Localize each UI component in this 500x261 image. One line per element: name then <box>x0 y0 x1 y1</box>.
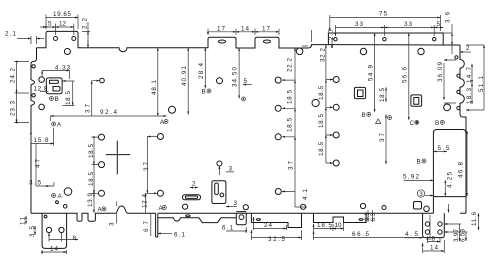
svg-text:12.4: 12.4 <box>142 194 149 208</box>
svg-text:22.2: 22.2 <box>287 58 294 72</box>
svg-text:75: 75 <box>379 11 387 18</box>
svg-text:18.5: 18.5 <box>65 91 72 105</box>
dim 51.1 rot <box>466 45 484 110</box>
svg-text:3: 3 <box>109 222 116 226</box>
dim 37 rot left-center <box>92 81 100 116</box>
B mark center <box>207 89 211 93</box>
svg-text:28.4: 28.4 <box>198 63 205 79</box>
svg-text:14: 14 <box>241 26 249 33</box>
svg-text:2: 2 <box>466 45 470 52</box>
svg-text:14.7: 14.7 <box>466 67 473 83</box>
svg-text:37: 37 <box>85 104 92 113</box>
dim 14.7 rot <box>471 64 473 83</box>
svg-text:B: B <box>417 159 421 166</box>
dim 40.91 rot <box>187 48 189 115</box>
svg-text:8: 8 <box>432 236 436 243</box>
dim 24.2 (left) <box>15 62 30 94</box>
left foot bar of flange strip <box>156 213 158 237</box>
dim 12.4 rot <box>146 193 157 213</box>
svg-text:3: 3 <box>419 191 423 198</box>
dim 18.5 rot mid-right <box>385 87 387 101</box>
dim 3.97 rot <box>444 224 461 241</box>
bottom flange strip wavy lower edge <box>158 218 237 223</box>
svg-text:15.8: 15.8 <box>34 137 49 144</box>
dim 2 (oval slot) <box>190 187 198 189</box>
main body top edge with tabs <box>37 31 461 51</box>
dim 2.1 <box>17 36 37 44</box>
component mid rounded square 2 <box>411 95 422 106</box>
svg-text:4.25: 4.25 <box>446 172 453 188</box>
small oval mark right <box>359 219 363 221</box>
svg-text:18.5: 18.5 <box>317 222 332 229</box>
svg-text:6.3: 6.3 <box>370 212 377 221</box>
svg-text:51.1: 51.1 <box>478 76 485 92</box>
svg-text:24: 24 <box>264 222 272 229</box>
dim 11 rot bottom-left <box>25 216 27 224</box>
B marks right cluster <box>367 112 371 116</box>
svg-text:23.3: 23.3 <box>10 101 17 116</box>
small oval mark in strip <box>186 215 190 217</box>
dim 2 top right <box>460 51 471 53</box>
dim 13.9 rot <box>93 193 95 213</box>
right lower big rect <box>433 130 466 214</box>
svg-text:18.5: 18.5 <box>318 114 325 128</box>
svg-text:32.2: 32.2 <box>319 48 326 62</box>
A mark mid right of 92.4 <box>164 120 168 124</box>
circle in tower <box>239 215 244 220</box>
dim 33 33 5 <box>335 25 434 36</box>
svg-text:56.6: 56.6 <box>401 67 408 83</box>
svg-text:4.33: 4.33 <box>55 64 70 71</box>
svg-text:3.5: 3.5 <box>29 226 36 237</box>
oval slot component <box>183 195 201 200</box>
dim 48.1 rot <box>157 48 159 116</box>
component mid rounded square 1 <box>354 87 365 98</box>
svg-text:3: 3 <box>234 200 238 207</box>
svg-text:3.6: 3.6 <box>445 12 452 23</box>
svg-text:18.5: 18.5 <box>88 144 95 158</box>
svg-text:8: 8 <box>73 235 77 242</box>
bottom edge <box>31 206 466 221</box>
svg-text:6.53: 6.53 <box>460 229 467 242</box>
svg-text:4.5: 4.5 <box>405 231 418 238</box>
dim 14 bottom-left <box>42 250 67 254</box>
dim 24 <box>254 217 287 230</box>
svg-text:37: 37 <box>143 162 150 171</box>
svg-text:18.5: 18.5 <box>318 142 325 156</box>
svg-text:5: 5 <box>48 21 52 28</box>
dim 6.1 bottom left <box>158 233 172 235</box>
svg-text:5: 5 <box>244 78 248 85</box>
dim 18.5 rot center-left chain <box>92 137 99 165</box>
dim 5 small center <box>243 84 252 86</box>
right bottom plate with 4 holes <box>423 213 445 237</box>
fold line under big tab <box>328 44 443 46</box>
B mark lower <box>422 159 426 163</box>
dim 3.5 <box>45 182 54 186</box>
svg-text:36.09: 36.09 <box>437 62 444 82</box>
svg-text:6.7: 6.7 <box>143 221 150 232</box>
tiny tick near plate top <box>448 204 450 213</box>
svg-text:33: 33 <box>404 21 412 28</box>
component 4.33 rounded rect with slots <box>46 78 62 94</box>
dim 18.3 rot <box>471 83 473 104</box>
dim 47 rot <box>36 144 50 187</box>
svg-text:5.92: 5.92 <box>403 174 419 181</box>
dim 34.50 rot <box>238 48 240 99</box>
mid row holes <box>39 77 45 83</box>
svg-text:C: C <box>410 120 415 127</box>
bottom flange rect right with 18.5/10 <box>314 213 367 222</box>
dim 6.53 rot <box>444 232 467 241</box>
dim 22.2 rot + chain1 <box>282 48 295 80</box>
dim 15.8 <box>31 128 54 146</box>
right edge with bumps <box>460 45 466 213</box>
small oval mark <box>257 219 261 221</box>
left edge <box>31 48 37 214</box>
dim 37 rot mid-right <box>385 114 387 164</box>
svg-text:17: 17 <box>217 26 225 33</box>
B mark left <box>50 97 54 101</box>
svg-text:3.5: 3.5 <box>29 180 41 187</box>
lower rows holes <box>99 134 105 140</box>
svg-text:2.7: 2.7 <box>328 29 335 40</box>
svg-text:18.5: 18.5 <box>287 90 294 104</box>
bottom flange rect with 24 dim <box>251 213 301 227</box>
dim 37 rot center <box>147 137 157 194</box>
dim 36.09 rot <box>444 60 456 103</box>
dim 12.8 <box>40 91 48 93</box>
svg-text:18.3: 18.3 <box>466 88 473 104</box>
svg-text:54.9: 54.9 <box>367 65 374 81</box>
svg-text:18.5: 18.5 <box>287 118 294 132</box>
dim 3 bump bottom <box>116 202 118 224</box>
dim 2.7 rot <box>302 30 332 46</box>
svg-text:6.1: 6.1 <box>174 232 185 239</box>
svg-text:4.1: 4.1 <box>302 189 309 200</box>
dim 3.6 rot <box>443 24 452 54</box>
dim 11.6 rot <box>478 213 480 230</box>
svg-text:14: 14 <box>50 246 58 253</box>
dim 4.1 rot <box>295 192 307 208</box>
svg-text:40.91: 40.91 <box>181 66 188 86</box>
dim 92.4 <box>50 115 166 117</box>
circled 3 marker <box>417 190 424 197</box>
svg-text:6.1: 6.1 <box>222 225 233 232</box>
dim 5 / 12 <box>46 24 74 36</box>
center cross <box>106 141 130 175</box>
svg-text:2.1: 2.1 <box>5 31 16 38</box>
dim 19.65 <box>46 15 78 30</box>
svg-text:18.5: 18.5 <box>318 86 325 100</box>
dim 28.4 rot <box>204 48 206 89</box>
svg-text:5: 5 <box>437 21 441 28</box>
svg-text:10: 10 <box>335 222 342 229</box>
dim 3 (bracket bottom) <box>226 206 237 208</box>
A mark 2 <box>52 194 56 198</box>
svg-text:2: 2 <box>192 181 196 188</box>
dim 8 bottom right <box>428 237 441 243</box>
dim 75 <box>330 15 441 31</box>
svg-text:11: 11 <box>20 217 27 225</box>
dim 8 bottom-left <box>49 233 78 242</box>
svg-text:34.50: 34.50 <box>232 67 239 87</box>
dim 17 14 17 <box>208 29 279 35</box>
svg-text:47: 47 <box>35 159 42 168</box>
svg-text:12: 12 <box>59 21 67 28</box>
svg-text:48.1: 48.1 <box>151 80 158 95</box>
svg-text:5.5: 5.5 <box>438 145 450 152</box>
svg-text:18.5: 18.5 <box>88 172 95 186</box>
tab holes <box>54 37 58 41</box>
dim 23.3 (left) <box>15 93 30 123</box>
svg-text:24.2: 24.2 <box>10 68 17 83</box>
dim 32.5 <box>251 230 301 240</box>
dim 18.5 vertical small <box>63 81 75 106</box>
svg-text:2.2: 2.2 <box>82 18 89 29</box>
svg-text:13.9: 13.9 <box>87 193 94 207</box>
dim 56.6 rot <box>408 33 410 120</box>
svg-text:18.5: 18.5 <box>379 88 386 102</box>
svg-text:12.8: 12.8 <box>34 86 48 93</box>
svg-text:B: B <box>362 112 366 119</box>
small circles on right edge <box>457 74 460 77</box>
dim 3.5 rot bottom-left <box>34 226 36 235</box>
small cutouts bottom right of center <box>414 202 422 210</box>
A mark bottom-left <box>102 207 106 211</box>
dim 4.33 <box>42 71 69 80</box>
dim 2.2 <box>82 22 90 48</box>
dim 3 small (bottom center-left) <box>219 166 234 175</box>
dim 54.9 rot <box>374 33 376 112</box>
keyhole bracket bottom center <box>212 181 226 204</box>
dim 14 bottom right <box>423 240 445 253</box>
svg-text:37: 37 <box>379 133 386 142</box>
svg-text:B: B <box>202 89 206 96</box>
svg-text:B: B <box>435 120 439 127</box>
tower in bottom strip <box>236 212 246 225</box>
A mark bottom-center <box>162 206 166 210</box>
svg-text:33: 33 <box>355 21 363 28</box>
dim 46.8 rot <box>466 131 468 196</box>
svg-text:14: 14 <box>430 245 438 252</box>
holes row under top edge <box>64 49 70 55</box>
dim 9.3 rot tiny <box>368 210 373 222</box>
dim 32.2 rot + chain2 <box>326 45 333 80</box>
B mark center 2 <box>242 97 246 101</box>
dim 66.5 <box>314 215 431 240</box>
dim 4.5 <box>405 237 423 239</box>
dim 37 rot right-center <box>282 137 295 192</box>
left foot plate <box>42 213 67 248</box>
dim 6.7 rot <box>150 213 152 236</box>
dim 18.5 10 bottom <box>314 219 344 231</box>
dim 5.5 <box>433 150 447 152</box>
svg-text:11.6: 11.6 <box>471 212 478 226</box>
svg-text:3: 3 <box>229 166 233 173</box>
svg-text:17: 17 <box>262 26 270 33</box>
svg-text:46.8: 46.8 <box>458 162 465 178</box>
dim 6.92 <box>404 179 434 181</box>
svg-text:19.65: 19.65 <box>53 11 71 18</box>
svg-text:37: 37 <box>288 161 295 170</box>
dim 6.1 bottom 2 <box>226 227 246 233</box>
small holes on left edge <box>32 65 35 68</box>
dim 4.25 rot <box>444 180 446 196</box>
svg-text:B: B <box>55 96 59 103</box>
A mark top <box>52 122 56 126</box>
